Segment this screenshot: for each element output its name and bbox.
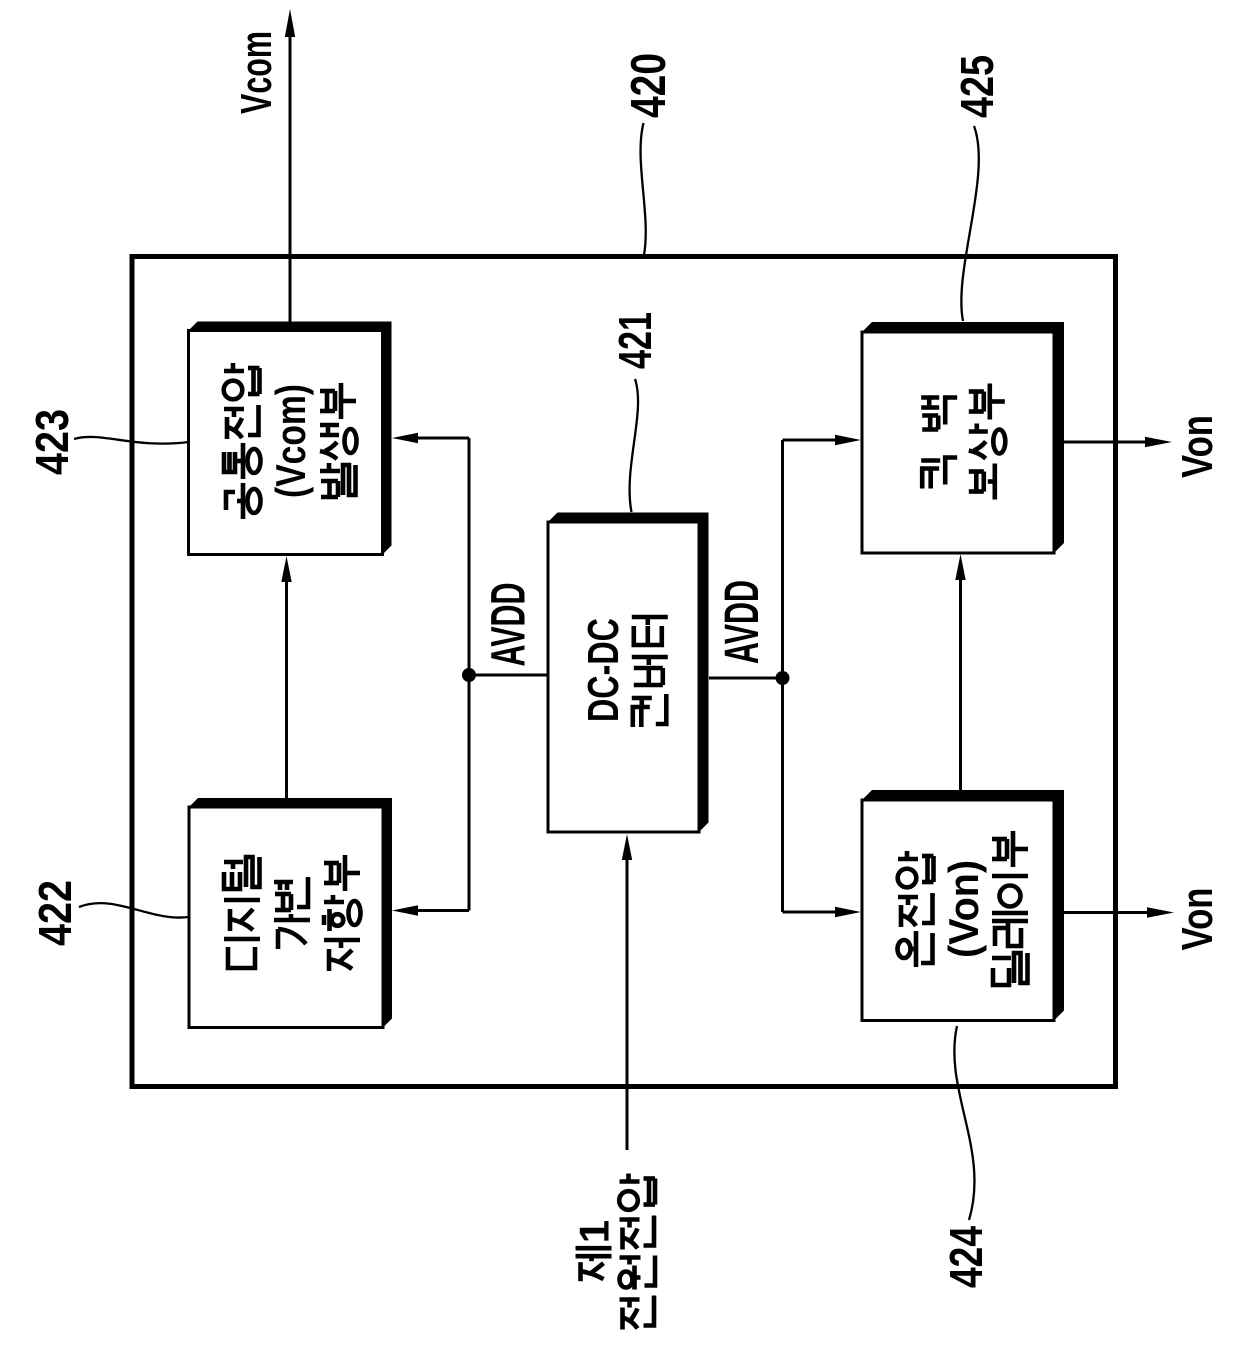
label Vcom: [232, 31, 281, 114]
block U425 kickback compensator: [862, 322, 1064, 553]
wire Von output top: [1064, 441, 1147, 444]
outer boundary box 420: [132, 257, 1116, 1087]
arrowhead into block 423 bottom: [281, 556, 291, 582]
svg-text:425: 425: [951, 55, 1003, 118]
junction dot AVDD right: [776, 671, 790, 685]
svg-text:DC-DC: DC-DC: [579, 618, 628, 722]
label 421: [609, 312, 661, 369]
wire from block 422 to block 423: [285, 578, 288, 798]
leader line 421: [630, 379, 638, 512]
wire AVDD left to block 422: [414, 909, 469, 912]
block U422 digital variable resistor: [189, 798, 392, 1028]
leader line 425: [961, 126, 978, 321]
svg-text:(Von): (Von): [940, 860, 987, 958]
label 422: [29, 880, 81, 946]
leader line 424: [954, 1026, 974, 1220]
wire first power voltage input: [626, 858, 629, 1150]
junction dot AVDD left: [462, 668, 476, 682]
svg-text:1: 1: [571, 1220, 618, 1243]
label Von bottom: [1173, 888, 1222, 951]
wire AVDD left to block 423: [414, 437, 469, 440]
wire AVDD right to block 424: [783, 911, 839, 914]
label 424: [940, 1226, 992, 1288]
wire AVDD right to block 425: [783, 439, 839, 442]
arrowhead into block 425 left: [835, 435, 861, 445]
wire AVDD right from DC-DC converter: [709, 677, 783, 680]
svg-text:423: 423: [26, 409, 78, 475]
svg-text:422: 422: [29, 880, 81, 946]
label AVDD left: [483, 583, 536, 667]
label 420: [622, 53, 676, 118]
wire from block 424 to block 425: [959, 580, 962, 790]
svg-text:420: 420: [622, 53, 676, 118]
label first power voltage input: [571, 1174, 655, 1330]
arrowhead into block 423 right: [392, 433, 418, 443]
svg-text:424: 424: [940, 1226, 992, 1288]
block U424 on-voltage (Von) delay: [862, 790, 1064, 1021]
svg-text:Vcom: Vcom: [232, 31, 281, 114]
label AVDD right: [716, 580, 769, 664]
svg-text:421: 421: [609, 312, 661, 369]
arrowhead into block 425 bottom: [955, 554, 965, 580]
svg-text:Von: Von: [1173, 415, 1222, 478]
arrowhead into block 422 right: [392, 905, 418, 915]
arrowhead into block 424 left: [835, 907, 861, 917]
wire AVDD right vertical bus: [781, 440, 784, 912]
svg-text:(Vcom): (Vcom): [267, 384, 314, 498]
label 423: [26, 409, 78, 475]
leader line 422: [79, 903, 189, 917]
wire Von output bottom: [1064, 911, 1148, 914]
label Von top: [1173, 415, 1222, 478]
block U423 common voltage (Vcom) generator: [189, 322, 392, 555]
svg-text:Von: Von: [1173, 888, 1222, 951]
block U421 DC-DC converter: [548, 513, 709, 833]
svg-text:AVDD: AVDD: [716, 580, 769, 664]
arrowhead Vcom output: [285, 9, 295, 37]
arrowhead into DC-DC converter bottom: [622, 834, 632, 860]
leader line 420: [641, 123, 646, 255]
arrowhead Von top: [1145, 437, 1172, 447]
svg-text:AVDD: AVDD: [483, 583, 536, 667]
wire Vcom output from block 423: [289, 30, 292, 331]
wire AVDD left from DC-DC converter: [469, 674, 548, 677]
leader line 423: [74, 437, 189, 444]
wire AVDD left vertical bus: [468, 438, 471, 911]
label 425: [951, 55, 1003, 118]
arrowhead Von bottom: [1147, 907, 1174, 917]
